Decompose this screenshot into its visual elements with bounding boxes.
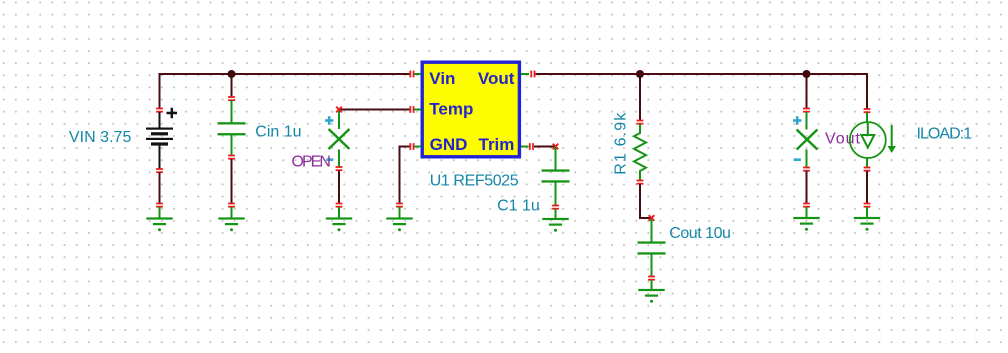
svg-text:Cin 1u: Cin 1u (255, 123, 301, 140)
pin Vout stub (521, 71, 535, 78)
wire: Trim to C1 (534, 146, 556, 148)
pin label Vout (478, 69, 515, 88)
node mark at Cout corner (649, 215, 655, 221)
pin GND stub (409, 143, 421, 150)
label C1 1u (497, 198, 540, 215)
ground (Cout) (638, 289, 664, 303)
capacitor Cin 1u (218, 74, 246, 204)
svg-text:Cout 10u: Cout 10u (669, 225, 731, 242)
pin Trim stub (521, 143, 534, 150)
label OPEN (292, 153, 331, 170)
label Vout (825, 131, 861, 148)
svg-text:Vout: Vout (825, 131, 861, 148)
junction node (Cin / top net) (228, 70, 236, 78)
svg-text:Trim: Trim (479, 135, 515, 154)
label VIN 3.75 (69, 129, 132, 146)
ground (OPEN) (326, 203, 352, 232)
ground (battery) (146, 203, 172, 232)
node mark at OPEN corner (336, 107, 342, 113)
capacitor Cout 10u (638, 219, 666, 290)
wire: top net from battery to Vin pin (160, 73, 410, 75)
voltmeter Vout (793, 74, 817, 204)
label R1 6.9k (rotated) (613, 112, 630, 175)
pin Vin stub (409, 71, 421, 78)
pin label Vin (429, 69, 455, 88)
capacitor C1 1u (542, 147, 570, 220)
pin label Trim (479, 135, 515, 154)
label ILOAD:1 (917, 125, 973, 142)
junction node (Vout meter / top net) (803, 70, 811, 78)
wire: top net right segment Vout to ILOAD (536, 73, 868, 75)
voltmeter OPEN (325, 111, 349, 204)
pin Temp stub (409, 106, 421, 113)
svg-text:VIN 3.75: VIN 3.75 (69, 129, 132, 146)
svg-text:U1 REF5025: U1 REF5025 (430, 173, 519, 190)
svg-text:OPEN: OPEN (292, 153, 331, 170)
pin label GND (430, 135, 468, 154)
resistor R1 6.9k (634, 74, 652, 218)
svg-text:C1 1u: C1 1u (497, 198, 540, 215)
node mark at C1 corner (553, 144, 559, 150)
ground (C1) (542, 218, 568, 232)
svg-text:Temp: Temp (429, 100, 473, 119)
current source ILOAD (850, 73, 896, 204)
svg-text:GND: GND (430, 135, 468, 154)
label Cin 1u (255, 123, 301, 140)
svg-text:R1 6.9k: R1 6.9k (613, 112, 630, 175)
op-amp U1 REF5025 body (422, 62, 519, 157)
label Cout 10u (669, 225, 731, 242)
wire: Temp net from OPEN meter to Temp pin (339, 110, 410, 112)
svg-text:Vout: Vout (478, 69, 515, 88)
wire: GND pin to ground (400, 147, 411, 204)
junction node (R1 / top net) (636, 70, 644, 78)
label U1 REF5025 (430, 173, 519, 190)
ground (U1 GND) (386, 203, 412, 232)
ground (Cin) (218, 203, 244, 232)
battery VIN 3.75 (146, 73, 177, 204)
ground (ILOAD) (854, 203, 880, 231)
svg-text:Vin: Vin (429, 69, 455, 88)
ground (Vout meter) (793, 203, 819, 231)
pin label Temp (429, 100, 473, 119)
svg-text:ILOAD:1: ILOAD:1 (917, 125, 973, 142)
